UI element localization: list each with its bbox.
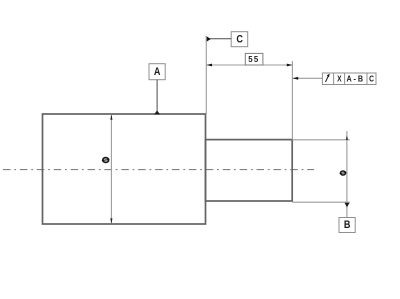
datum B triangle — [345, 203, 350, 208]
svg-text:55: 55 — [248, 55, 259, 64]
left diameter top arrowhead — [110, 115, 112, 120]
extension line from shoulder face up to datum C — [205, 36, 207, 114]
left diameter bottom arrowhead — [110, 218, 112, 223]
svg-text:C: C — [236, 34, 243, 46]
svg-text:X: X — [337, 74, 342, 84]
large cylinder body — [43, 114, 206, 224]
datum C triangle — [206, 36, 211, 42]
right diameter symbol Ø (rotated) — [340, 171, 347, 175]
feature control frame leader arrowhead — [293, 77, 299, 80]
left diameter symbol Ø (rotated) — [102, 158, 110, 163]
extension line from small cylinder top edge — [292, 139, 349, 141]
datum C symbol box — [231, 32, 248, 47]
extension line right of 55 down to small cylinder — [291, 61, 293, 140]
svg-text:A - B: A - B — [347, 75, 364, 84]
55 value box — [245, 53, 263, 65]
circular runout symbol (slanted arrow) — [326, 74, 330, 82]
svg-text:B: B — [344, 219, 351, 231]
right diameter top arrowhead — [346, 136, 348, 140]
svg-text:C: C — [369, 74, 374, 84]
datum A triangle — [154, 110, 160, 114]
55 left arrowhead — [207, 64, 213, 67]
svg-text:A: A — [154, 66, 161, 78]
55 dimension line — [206, 64, 292, 66]
datum A symbol box — [149, 64, 165, 80]
datum B symbol box — [339, 218, 355, 233]
feature control frame outer box — [322, 73, 376, 85]
centerline (horizontal axis, dash-dot) — [3, 169, 314, 171]
feature control frame divider 1 — [333, 73, 335, 85]
small cylinder body — [206, 140, 293, 201]
55 right arrowhead — [287, 64, 293, 67]
left diameter dimension line — [110, 115, 112, 224]
extension line from small cylinder bottom edge — [292, 201, 349, 203]
feature control frame divider 2 — [344, 73, 346, 85]
datum C leader line — [210, 38, 232, 40]
feature control frame divider 3 — [366, 73, 368, 85]
datum A leader line — [156, 80, 158, 113]
feature control frame leader line — [293, 77, 322, 79]
right diameter dimension line — [346, 131, 348, 218]
